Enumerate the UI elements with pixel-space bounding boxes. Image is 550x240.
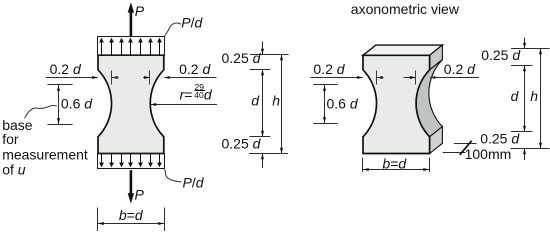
svg-text:P: P: [135, 3, 145, 19]
svg-text:0.25 d: 0.25 d: [481, 47, 521, 63]
svg-text:40: 40: [194, 90, 204, 100]
svg-text:of u: of u: [2, 162, 26, 178]
svg-text:0.25 d: 0.25 d: [222, 50, 262, 66]
svg-text:0.2 d: 0.2 d: [313, 61, 345, 77]
svg-text:h: h: [530, 88, 538, 104]
svg-text:0.25 d: 0.25 d: [222, 136, 262, 152]
svg-text:100mm: 100mm: [465, 146, 512, 162]
svg-text:measurement: measurement: [2, 146, 88, 162]
svg-text:axonometric view: axonometric view: [351, 1, 460, 17]
svg-text:P/d: P/d: [183, 175, 205, 191]
svg-text:0.2 d: 0.2 d: [179, 61, 211, 77]
svg-text:d: d: [204, 87, 213, 103]
svg-text:b=d: b=d: [382, 155, 407, 171]
svg-text:for: for: [2, 131, 19, 147]
svg-text:0.6 d: 0.6 d: [327, 96, 359, 112]
svg-text:0.2 d: 0.2 d: [50, 61, 82, 77]
svg-text:r=: r=: [180, 87, 193, 103]
svg-text:0.25 d: 0.25 d: [480, 131, 520, 147]
svg-text:d: d: [251, 92, 260, 108]
svg-text:0.6 d: 0.6 d: [61, 96, 93, 112]
svg-text:P/d: P/d: [181, 15, 203, 31]
svg-text:b=d: b=d: [119, 207, 144, 223]
svg-text:P: P: [135, 187, 145, 203]
svg-text:0.2 d: 0.2 d: [444, 61, 476, 77]
svg-text:d: d: [511, 88, 520, 104]
svg-text:h: h: [272, 92, 280, 108]
